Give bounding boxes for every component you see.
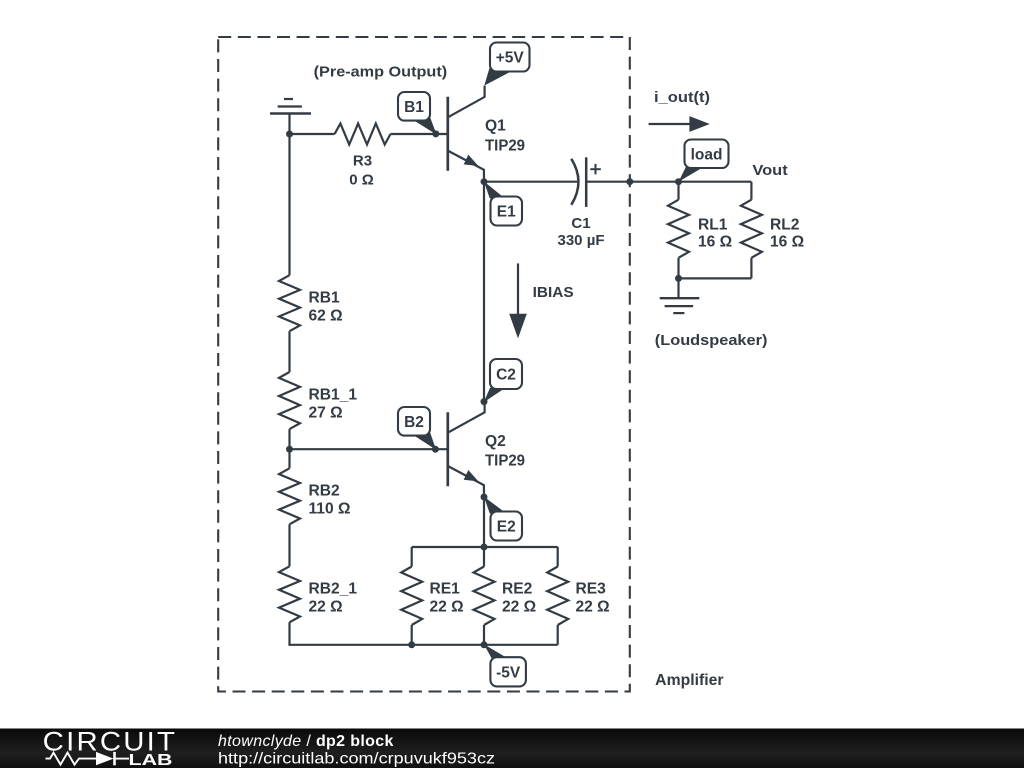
- svg-text:TIP29: TIP29: [485, 453, 525, 470]
- svg-text:RE1: RE1: [430, 580, 461, 597]
- power flag -5V: [484, 644, 526, 686]
- ground (loudspeaker): [660, 278, 700, 313]
- svg-text:16 Ω: 16 Ω: [698, 233, 732, 250]
- text Vout: [752, 163, 787, 179]
- svg-text:(Pre-amp Output): (Pre-amp Output): [314, 64, 448, 81]
- svg-text:0 Ω: 0 Ω: [349, 172, 374, 189]
- svg-text:C1: C1: [571, 215, 590, 232]
- wire RE1 bottom lead: [411, 625, 413, 645]
- svg-text:330 µF: 330 µF: [558, 232, 605, 249]
- node at boundary crossing: [626, 178, 633, 185]
- node at R3/left-rail junction: [286, 131, 293, 138]
- resistor RE3: [547, 567, 609, 626]
- footer URL: [218, 751, 495, 768]
- label C2 on Q2 collector: [484, 359, 522, 402]
- label B2 on Q2 base: [398, 407, 436, 450]
- resistor R3: [335, 124, 391, 189]
- node Q1 emitter E1: [481, 178, 488, 185]
- node RE bus tap: [481, 544, 488, 551]
- wire E1 down to C2 (Q2 collector): [483, 182, 485, 402]
- CircuitLab logo wordmark LAB: [129, 752, 173, 768]
- text (Loudspeaker): [655, 332, 768, 349]
- node Q2 collector C2: [481, 398, 488, 405]
- annotation arrow IBIAS: [509, 263, 573, 338]
- wire C1 to load node: [586, 181, 678, 183]
- footer author / title: [218, 733, 394, 750]
- svg-text:B2: B2: [404, 414, 424, 431]
- svg-text:E1: E1: [497, 204, 516, 221]
- svg-text:16 Ω: 16 Ω: [770, 233, 804, 250]
- wire ground to R3: [290, 133, 335, 135]
- svg-text:LAB: LAB: [129, 752, 173, 768]
- wire E2 to RE bus: [483, 497, 485, 547]
- svg-text:22 Ω: 22 Ω: [576, 598, 610, 615]
- node RL bottom: [675, 275, 682, 282]
- wire rail RB2-RB2_1: [288, 524, 290, 566]
- wire RL2 bottom lead: [750, 258, 752, 279]
- annotation arrow i_out(t): [649, 89, 710, 132]
- node Q2 base pin B2: [432, 446, 439, 453]
- label E1 on Q1 emitter: [484, 181, 522, 225]
- svg-text:RE2: RE2: [502, 580, 533, 597]
- capacitor C1 330uF (polarized): [558, 157, 605, 249]
- svg-text:RL1: RL1: [698, 216, 728, 233]
- resistor RB2: [279, 468, 351, 524]
- svg-text:Q2: Q2: [485, 433, 506, 450]
- svg-text:i_out(t): i_out(t): [654, 89, 710, 106]
- svg-text:R3: R3: [353, 153, 372, 170]
- wire RE3 leads: [557, 547, 559, 645]
- wire RL1 top lead: [677, 182, 679, 200]
- node bottom bus -5V tap: [481, 641, 488, 648]
- power flag +5V on Q1 collector: [484, 43, 529, 86]
- svg-text:TIP29: TIP29: [485, 137, 525, 154]
- wire divider to Q2 base: [290, 448, 448, 450]
- svg-text:RB1_1: RB1_1: [309, 386, 358, 403]
- wire RL2 drop + lead: [750, 182, 752, 200]
- CircuitLab logo resistor+diode glyph: [46, 752, 130, 765]
- dashed boundary box (Amplifier): [218, 37, 630, 692]
- svg-text:(Loudspeaker): (Loudspeaker): [655, 332, 768, 349]
- svg-text:Q1: Q1: [485, 118, 506, 135]
- resistor RE2: [474, 567, 537, 626]
- svg-text:62 Ω: 62 Ω: [309, 307, 343, 324]
- wire left rail upper: [288, 134, 290, 275]
- svg-text:IBIAS: IBIAS: [533, 284, 574, 301]
- text Amplifier: [655, 672, 723, 689]
- node bottom bus RE1: [408, 641, 415, 648]
- wire rail bottom + bottom bus: [290, 622, 558, 645]
- wire RE top bus: [412, 546, 558, 548]
- resistor RL1: [668, 200, 732, 258]
- resistor RE1: [401, 567, 463, 626]
- resistor RB1: [279, 275, 343, 331]
- text (Pre-amp Output): [314, 64, 448, 81]
- svg-text:RB2_1: RB2_1: [309, 580, 358, 597]
- ground (input, flipped): [270, 99, 311, 134]
- wire R3 to Q1 base: [391, 133, 448, 135]
- wire load to RL2 top: [679, 181, 752, 183]
- node Q2 emitter E2: [481, 494, 488, 501]
- CircuitLab logo wordmark CIRCUIT: [43, 727, 178, 757]
- resistor RB1_1: [279, 372, 357, 429]
- svg-text:B1: B1: [404, 99, 424, 116]
- svg-text:22 Ω: 22 Ω: [502, 598, 536, 615]
- svg-text:27 Ω: 27 Ω: [309, 404, 343, 421]
- label load: [679, 140, 729, 182]
- transistor Q1 TIP29: [448, 86, 526, 182]
- svg-text:E2: E2: [497, 519, 516, 536]
- wire rail RB1-RB1_1: [288, 331, 290, 372]
- label B1 on Q1 base: [398, 92, 437, 135]
- svg-text:22 Ω: 22 Ω: [430, 598, 464, 615]
- svg-text:htownclyde / dp2 block: htownclyde / dp2 block: [218, 733, 394, 750]
- transistor Q2 TIP29: [448, 402, 526, 497]
- svg-text:110 Ω: 110 Ω: [309, 500, 351, 517]
- wire RL1 bottom lead: [677, 258, 679, 279]
- wire RL bottom bus: [679, 277, 752, 279]
- node Q1 base pin B1: [432, 130, 439, 137]
- svg-text:Amplifier: Amplifier: [655, 672, 723, 689]
- wire RE1 top lead: [411, 547, 413, 567]
- svg-text:+5V: +5V: [496, 50, 525, 67]
- svg-text:RB2: RB2: [309, 482, 341, 499]
- footer bar: [0, 729, 1024, 768]
- svg-text:RE3: RE3: [576, 580, 607, 597]
- svg-text:load: load: [691, 146, 723, 163]
- wire RE2 leads: [483, 547, 485, 645]
- wire rail RB1_1-RB2: [288, 429, 290, 468]
- svg-text:Vout: Vout: [752, 163, 787, 179]
- svg-text:C2: C2: [496, 367, 516, 384]
- resistor RB2_1: [279, 566, 357, 622]
- svg-text:-5V: -5V: [496, 665, 521, 682]
- node base divider B2 tap: [286, 446, 293, 453]
- svg-text:RB1: RB1: [309, 289, 341, 306]
- node load (Vout): [675, 178, 682, 185]
- svg-text:RL2: RL2: [770, 216, 800, 233]
- resistor RL2: [741, 200, 804, 258]
- wire E1 to C1: [484, 181, 577, 183]
- svg-text:http://circuitlab.com/crpuvukf: http://circuitlab.com/crpuvukf953cz: [218, 751, 495, 768]
- label E2 on Q2 emitter: [484, 497, 522, 541]
- svg-text:22 Ω: 22 Ω: [309, 598, 343, 615]
